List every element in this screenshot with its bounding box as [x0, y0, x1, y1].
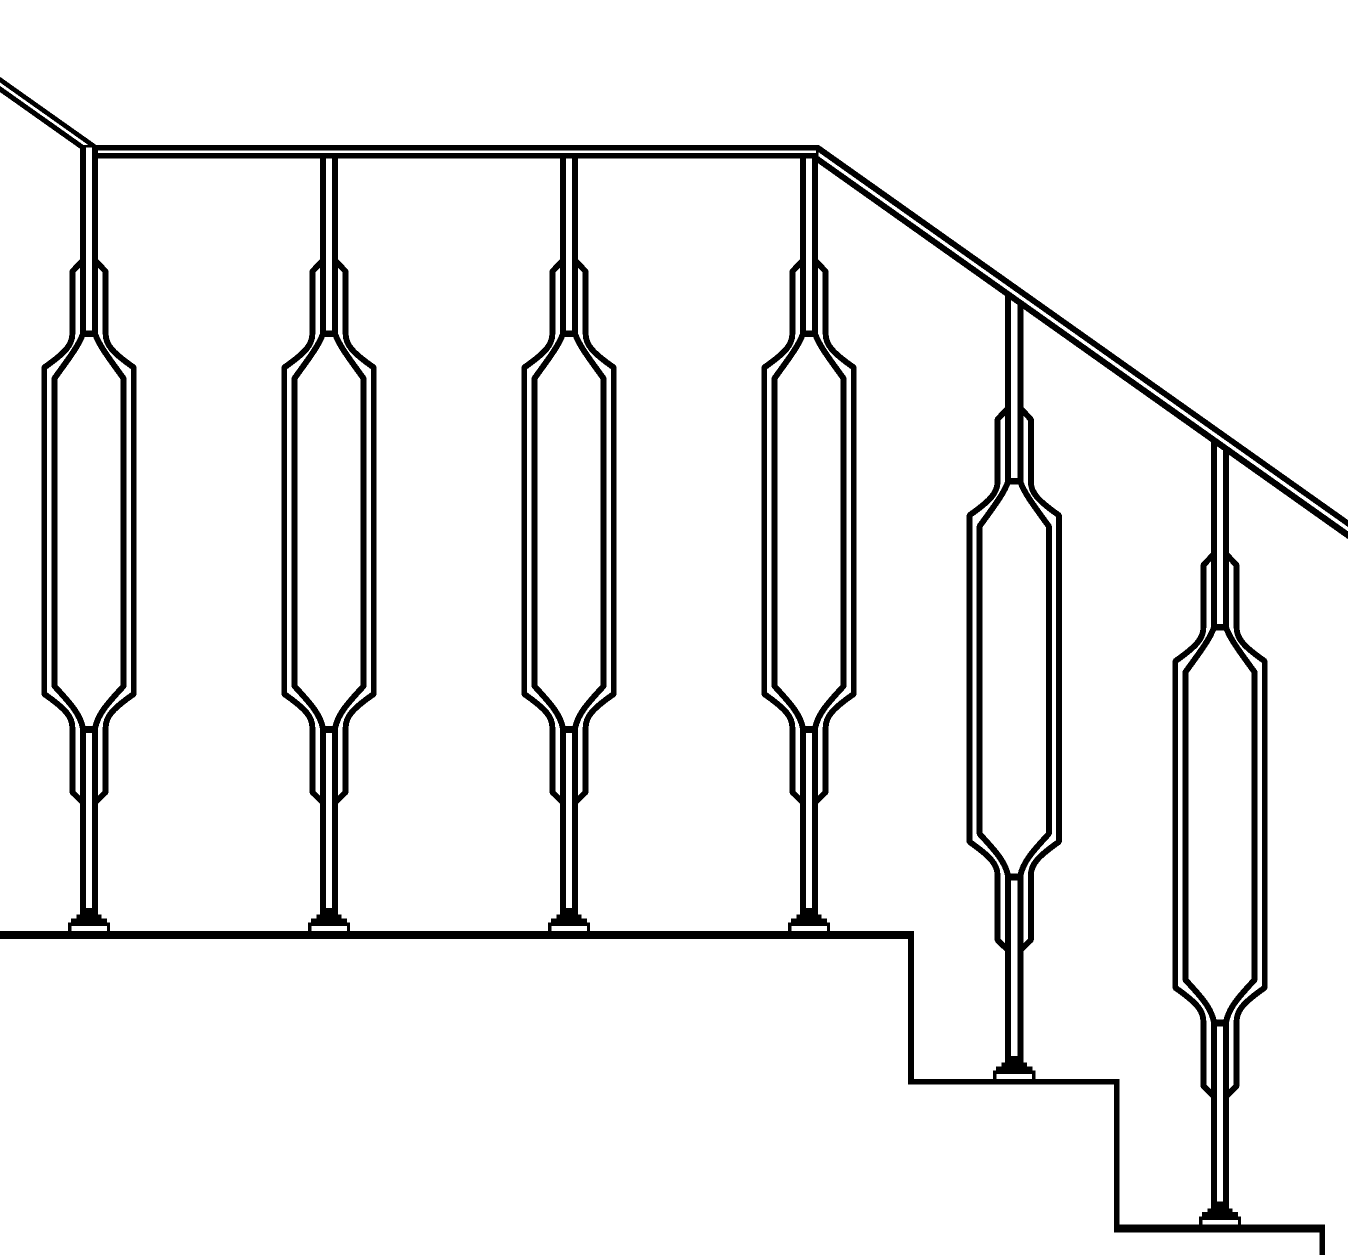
- stair riser 2: [1114, 1079, 1120, 1233]
- baluster B6: [1175, 441, 1265, 1228]
- stair tread 2: [908, 1079, 1120, 1085]
- stair tread 3: [1114, 1225, 1325, 1233]
- upper landing floor line: [0, 931, 914, 939]
- baluster B1: [44, 147, 134, 934]
- stair riser 3: [1319, 1225, 1325, 1255]
- sloped handrail upper-left (black band): [0, 77, 96, 159]
- baluster B4: [764, 147, 854, 934]
- horizontal handrail (black band): [85, 145, 818, 159]
- baluster B1 stem channel notch at corner: [86, 147, 92, 159]
- baluster B5: [969, 295, 1058, 1082]
- horizontal handrail white groove: [98, 151, 816, 154]
- sloped handrail lower-right (black band): [811, 145, 1348, 539]
- baluster B3: [524, 147, 614, 934]
- sloped handrail lower-right white groove: [819, 152, 1348, 531]
- baluster B2: [284, 147, 374, 934]
- stair riser 1: [908, 931, 914, 1085]
- sloped handrail upper-left white groove: [0, 83, 88, 145]
